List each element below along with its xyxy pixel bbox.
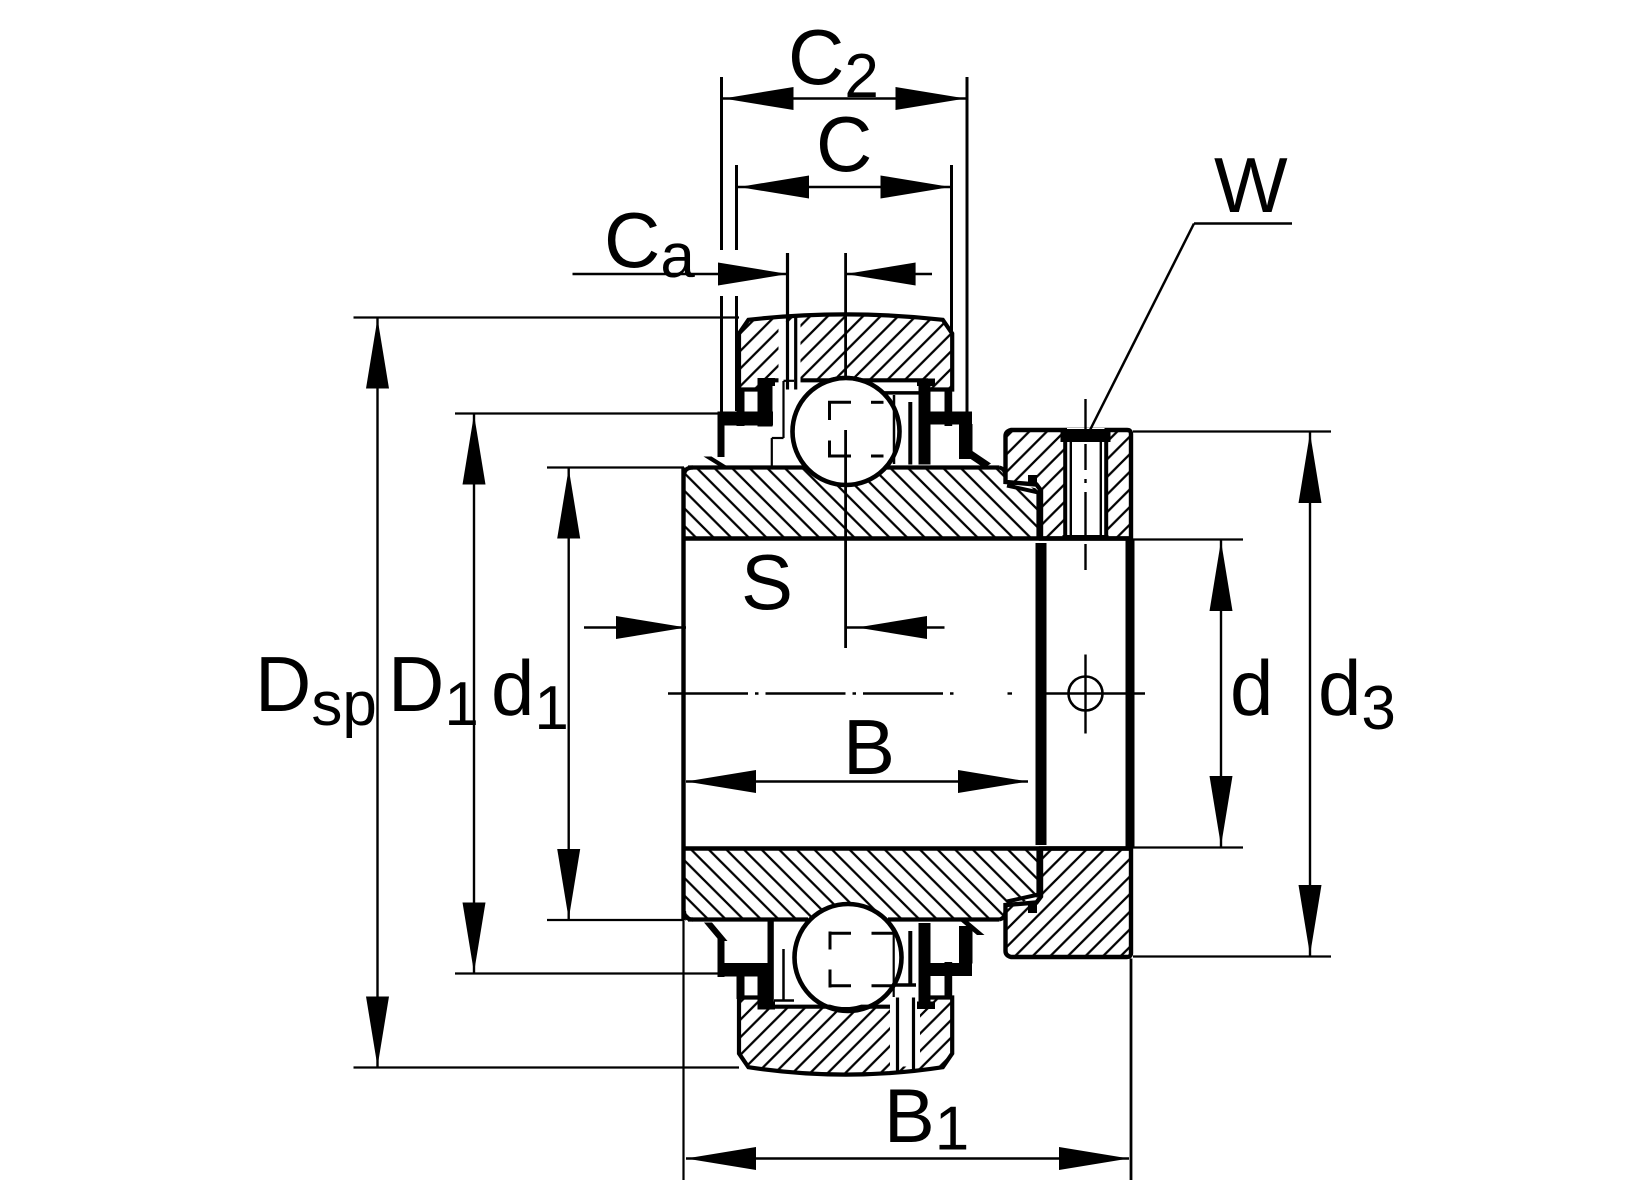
grub screw head cap (black) bbox=[1061, 429, 1111, 442]
inner ring right face seen through bore bbox=[1036, 543, 1047, 845]
dimension C bbox=[735, 165, 738, 250]
inner ring bottom section (hatched) bbox=[684, 849, 1039, 920]
seal top-left (black) bbox=[704, 378, 776, 467]
inner ring top edge segments (gapped at ball) bbox=[688, 465, 806, 469]
inner ring shoulder outlines top bbox=[782, 381, 784, 438]
dimension d3 bbox=[1133, 430, 1331, 432]
outer ring top (spherical OD, hatched) bbox=[739, 314, 952, 389]
svg-text:B: B bbox=[843, 703, 895, 791]
grub screw hole bottom edge bbox=[1063, 535, 1109, 541]
screw position circle on axis bbox=[1069, 677, 1103, 711]
inner ring shoulder outlines bottom bbox=[782, 949, 785, 1000]
inner ring extension right end seen through bore bbox=[1126, 539, 1135, 849]
inner ring right chamfer to collar (bottom) bbox=[1007, 895, 1039, 902]
outer ring top outline bbox=[739, 314, 952, 389]
bore line bottom bbox=[684, 846, 1131, 851]
seal bottom-right (black) bbox=[917, 922, 985, 1010]
outer ring bottom (hatched) bbox=[739, 998, 952, 1075]
svg-text:C: C bbox=[816, 100, 872, 188]
dimension B bbox=[686, 780, 1028, 782]
dimension C2 bbox=[720, 77, 723, 250]
main axis centre line bbox=[668, 692, 955, 694]
lubrication hole top (white slot + edges) bbox=[779, 322, 801, 388]
lubrication hole bottom (white slot + edges) bbox=[890, 1001, 920, 1067]
dimension B1 bbox=[682, 921, 684, 1180]
dimension d1 bbox=[547, 466, 684, 468]
inner ring left face line (through bore) bbox=[681, 468, 685, 921]
dimension S bbox=[584, 626, 686, 628]
outer ring bottom outline bbox=[739, 998, 952, 1075]
ball centre line / Ca extension bbox=[844, 253, 847, 378]
svg-text:S: S bbox=[741, 538, 793, 626]
seal top-right (black) bbox=[917, 379, 991, 469]
collar top outline bbox=[1006, 430, 1132, 539]
cage bracket bottom ball bbox=[829, 932, 832, 950]
inner ring bottom edge segments (gapped at ball) bbox=[688, 917, 808, 921]
dimension Ca bbox=[573, 273, 789, 275]
bore line top bbox=[684, 536, 1131, 541]
ball bottom (rolling element) bbox=[795, 904, 902, 1011]
ball top (rolling element) bbox=[793, 378, 900, 485]
label W with leader to grub screw bbox=[1194, 222, 1292, 225]
grub screw body thread lines bbox=[1070, 441, 1072, 536]
eccentric locking collar bottom section (hatched) bbox=[1006, 849, 1132, 958]
inner ring top section (hatched) bbox=[684, 468, 1039, 539]
collar bottom outline bbox=[1006, 849, 1132, 958]
grub screw W hole bbox=[1067, 428, 1105, 538]
svg-text:d: d bbox=[1230, 644, 1273, 732]
svg-text:W: W bbox=[1214, 141, 1288, 229]
dimension d bbox=[1132, 538, 1243, 540]
cage bracket top ball bbox=[828, 402, 831, 421]
dimension Dsp bbox=[354, 316, 740, 318]
dimension D1 bbox=[455, 412, 722, 414]
inner ring right chamfer to collar (top) bbox=[1007, 486, 1039, 493]
seal bottom-left (black) bbox=[704, 921, 775, 1010]
grub screw centre line bbox=[1084, 399, 1086, 433]
eccentric locking collar top section (hatched) bbox=[1006, 430, 1132, 539]
